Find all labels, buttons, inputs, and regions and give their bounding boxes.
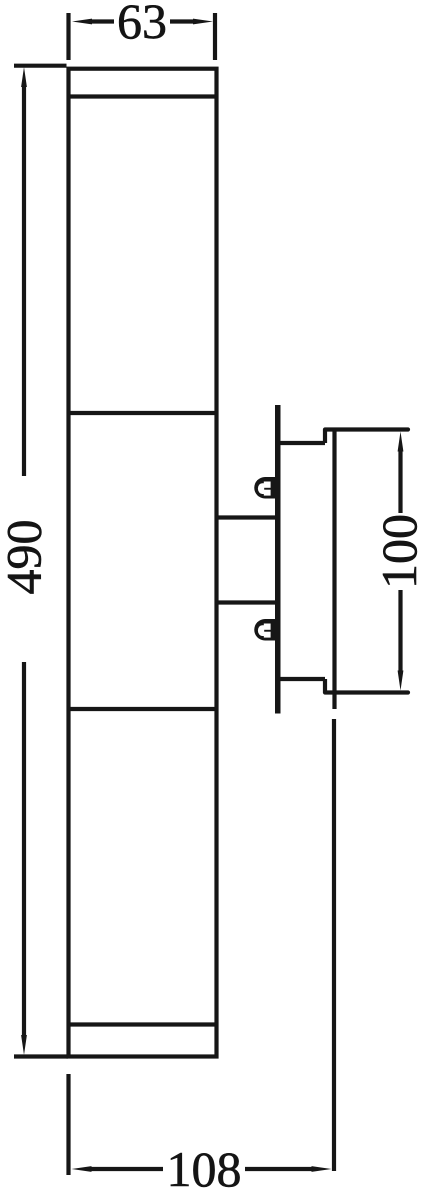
63 right arrow xyxy=(193,19,213,25)
bracket bottom line from plate xyxy=(277,677,325,681)
body upper divider xyxy=(67,411,217,415)
screw bottom xyxy=(254,619,277,641)
100 bottom arrow xyxy=(398,671,404,691)
490 top arrow xyxy=(21,67,27,87)
svg-text:100: 100 xyxy=(371,514,422,589)
bracket right edge xyxy=(332,430,336,710)
490 bottom arrow xyxy=(21,1035,27,1055)
108 dimension line left segment xyxy=(90,1167,163,1171)
108 right arrow xyxy=(312,1166,332,1172)
bracket bottom step xyxy=(323,679,327,693)
108 left extension line xyxy=(66,1074,70,1175)
490 top extension line xyxy=(14,64,67,68)
100 top arrow xyxy=(398,432,404,452)
490 bottom extension line xyxy=(14,1054,68,1058)
490 dimension line upper segment xyxy=(22,85,26,476)
svg-text:490: 490 xyxy=(0,520,52,595)
svg-text:108: 108 xyxy=(167,1141,242,1197)
100 top extension line xyxy=(325,427,408,431)
108 dimension line right segment xyxy=(245,1167,313,1171)
lamp body outline xyxy=(69,69,217,1057)
63 left arrow xyxy=(72,19,92,25)
body bottom cap line xyxy=(67,1022,217,1026)
body top cap line xyxy=(67,94,217,98)
bracket top line from plate xyxy=(277,441,325,445)
100 dimension line upper segment xyxy=(398,450,402,513)
108 left arrow xyxy=(72,1166,92,1172)
body lower divider xyxy=(67,707,217,711)
63 dimension line left segment xyxy=(90,19,114,23)
bracket top step xyxy=(323,430,327,444)
svg-text:63: 63 xyxy=(117,0,167,49)
stem top line xyxy=(217,515,276,519)
wall plate xyxy=(275,405,281,714)
108 right extension line xyxy=(332,719,336,1171)
screw top xyxy=(254,477,277,499)
63 dimension line right segment xyxy=(170,19,195,23)
63 left extension line xyxy=(66,13,70,60)
stem bottom line xyxy=(217,600,276,604)
100 dimension line lower segment xyxy=(398,590,402,672)
100 bottom extension line xyxy=(325,690,408,694)
63 right extension line xyxy=(213,13,217,60)
490 dimension line lower segment xyxy=(22,662,26,1037)
